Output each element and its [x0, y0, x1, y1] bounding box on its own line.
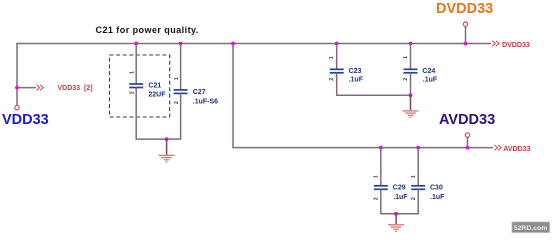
svg-text:.1uF: .1uF	[430, 194, 445, 201]
ground symbol (below C29/C30)	[388, 214, 404, 232]
junction: C27 top	[179, 42, 183, 46]
capacitor C29 plates	[374, 186, 388, 190]
capacitor C30 plates	[411, 186, 425, 190]
capacitor C27 plates	[174, 90, 188, 94]
svg-text:.1uF-S6: .1uF-S6	[193, 99, 218, 106]
wire: vertical branch to AVDD rail	[232, 44, 234, 148]
capacitor C23 plates	[330, 69, 344, 73]
svg-text:52RD.com: 52RD.com	[514, 225, 547, 232]
svg-text:C27: C27	[193, 89, 206, 96]
junction: C21 top	[134, 42, 138, 46]
wire: left vertical drop to VDD33 terminal	[16, 43, 18, 105]
svg-text:1: 1	[403, 56, 409, 59]
node: VDD33 terminal circle	[15, 105, 19, 109]
ground symbol (below C24)	[403, 95, 419, 117]
wire: C23-C24 bottom tie	[336, 94, 411, 96]
capacitor C24 plates	[404, 69, 418, 73]
svg-text:2: 2	[174, 101, 180, 104]
svg-text:2: 2	[130, 91, 136, 94]
junction: ground tap C29/C30	[394, 212, 398, 216]
svg-text:DVDD33: DVDD33	[436, 1, 493, 17]
junction: AVDD33 terminal tap	[466, 146, 470, 150]
svg-text:2: 2	[374, 197, 380, 200]
wire: C21 bottom lead	[135, 88, 137, 140]
svg-text:C30: C30	[430, 185, 443, 192]
svg-text:2: 2	[411, 197, 417, 200]
off-page connector arrow DVDD33	[492, 41, 499, 46]
off-page connector arrow VDD33	[37, 85, 44, 90]
svg-text:VDD33: VDD33	[2, 112, 49, 128]
svg-text:AVDD33: AVDD33	[503, 144, 530, 153]
junction: C30 top	[416, 146, 420, 150]
svg-text:1: 1	[411, 175, 417, 178]
wire: C23 bottom lead	[336, 73, 338, 96]
wire: stub to off-page connector	[17, 87, 36, 89]
svg-text:.1uF: .1uF	[349, 76, 364, 83]
ground symbol (below C21/C27)	[159, 139, 175, 162]
svg-text:AVDD33: AVDD33	[439, 112, 495, 128]
wire: AVDD horizontal rail	[232, 147, 493, 149]
wire: C29-C30 bottom tie	[380, 213, 419, 215]
junction: C29 top	[379, 146, 383, 150]
svg-text:2: 2	[403, 78, 409, 81]
wire: C30 bottom lead	[417, 189, 419, 213]
svg-text:1: 1	[329, 56, 335, 59]
junction: DVDD33 terminal tap	[464, 42, 468, 46]
wire: C21 top lead	[135, 44, 137, 85]
svg-text:C29: C29	[393, 185, 406, 192]
node: DVDD33 terminal circle	[463, 22, 467, 26]
svg-text:C21 for power quality.: C21 for power quality.	[96, 25, 199, 35]
wire: AVDD33 terminal stem	[467, 137, 469, 147]
capacitor C21 plates	[129, 84, 143, 88]
junction: branch to lower rail	[231, 42, 235, 46]
wire: top power rail	[17, 43, 492, 45]
wire: C27 top lead	[180, 44, 182, 90]
wire: C29 top lead	[380, 148, 382, 186]
svg-text:1: 1	[174, 77, 180, 80]
svg-text:.1uF: .1uF	[423, 76, 438, 83]
off-page connector arrow AVDD33	[494, 145, 501, 150]
wire: C23 top lead	[336, 44, 338, 70]
wire: DVDD33 terminal stem	[465, 26, 467, 43]
svg-text:DVDD33: DVDD33	[502, 40, 530, 49]
svg-text:22UF: 22UF	[148, 91, 166, 98]
svg-text:[2]: [2]	[84, 85, 93, 92]
wire: C24 top lead	[410, 44, 412, 70]
svg-text:C24: C24	[422, 68, 435, 75]
svg-text:VDD33: VDD33	[58, 85, 81, 92]
junction: VDD33 stub tap	[15, 86, 19, 90]
svg-text:C23: C23	[349, 68, 362, 75]
wire: C27 bottom lead	[180, 93, 182, 139]
svg-text:.1uF: .1uF	[393, 194, 408, 201]
wire: C30 top lead	[417, 148, 419, 186]
svg-text:2: 2	[329, 78, 335, 81]
node: AVDD33 terminal circle	[465, 133, 469, 137]
wire: C29 bottom lead	[380, 189, 382, 213]
svg-text:C21: C21	[148, 82, 161, 89]
svg-text:1: 1	[374, 175, 380, 178]
junction: C23 top	[335, 42, 339, 46]
wire: C24 bottom lead	[410, 73, 412, 96]
junction: C24 top	[409, 42, 413, 46]
dashed emphasis box around C21	[110, 55, 170, 117]
junction: C24 bottom / ground tap	[409, 93, 413, 97]
wire: C21-C27 bottom tie	[136, 138, 182, 140]
junction: ground tap C21/C27	[165, 137, 169, 141]
watermark 52RD.com	[512, 222, 550, 233]
svg-text:1: 1	[130, 71, 136, 74]
